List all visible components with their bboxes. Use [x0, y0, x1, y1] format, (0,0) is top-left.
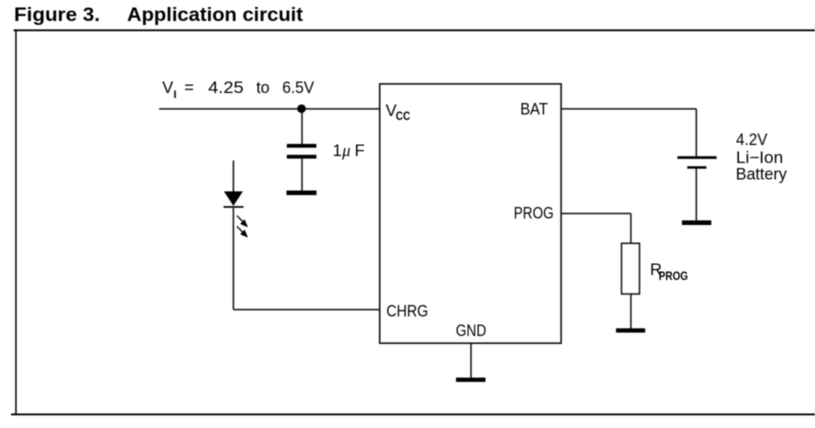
label battery 4.2V Li-Ion Battery: [736, 131, 788, 183]
wire GND pin: [470, 343, 472, 378]
LED light arrows: [237, 216, 247, 237]
frame left edge: [15, 29, 17, 414]
IC U1: [380, 84, 561, 343]
label VI = 4.25 to 6.5V: [162, 79, 314, 101]
svg-text:Li−Ion: Li−Ion: [736, 149, 783, 167]
wire battery negative lead: [695, 168, 697, 221]
wire LED anode stub: [232, 161, 234, 193]
svg-text:GND: GND: [456, 322, 487, 340]
LED D1: [224, 191, 244, 207]
svg-text:4.2V: 4.2V: [736, 131, 767, 149]
label 1uF: [333, 141, 365, 160]
wire LED cathode down: [232, 208, 234, 310]
svg-text:=: =: [184, 79, 194, 97]
wire capacitor lower lead: [301, 158, 303, 191]
node junction at VI: [297, 104, 306, 113]
svg-text:CC: CC: [396, 111, 411, 123]
wire to CHRG pin: [233, 309, 379, 311]
svg-text:4.25: 4.25: [208, 79, 243, 97]
svg-text:PROG: PROG: [659, 269, 688, 283]
svg-text:Application circuit: Application circuit: [127, 4, 304, 26]
svg-text:6.5V: 6.5V: [282, 79, 314, 97]
frame bottom edge: [11, 414, 815, 416]
wire BAT to battery: [561, 109, 696, 157]
svg-text:Battery: Battery: [736, 166, 788, 184]
svg-text:BAT: BAT: [520, 100, 548, 118]
svg-text:F: F: [355, 142, 365, 160]
svg-text:to: to: [256, 79, 270, 97]
wire VCC input: [159, 108, 380, 110]
figure title: [14, 4, 304, 26]
ground (battery): [682, 220, 711, 225]
ground (capacitor): [287, 191, 317, 196]
svg-text:1: 1: [333, 142, 342, 160]
svg-text:Figure 3.: Figure 3.: [14, 4, 100, 26]
capacitor C1 plates: [287, 144, 317, 159]
wire capacitor upper lead: [301, 109, 303, 145]
svg-text:CHRG: CHRG: [386, 302, 428, 320]
label RPROG: [650, 261, 688, 283]
ground (resistor): [616, 328, 645, 332]
battery BT1: [677, 156, 716, 169]
svg-text:I: I: [174, 89, 177, 101]
ground (GND pin): [456, 378, 486, 382]
pin label VCC: [386, 102, 411, 123]
resistor RPROG: [622, 243, 640, 294]
wire resistor lower lead: [630, 294, 632, 329]
wire PROG to resistor: [561, 214, 631, 244]
svg-text:PROG: PROG: [514, 205, 554, 223]
frame top rule: [14, 29, 815, 31]
svg-text:μ: μ: [341, 141, 350, 160]
svg-text:V: V: [162, 79, 173, 97]
